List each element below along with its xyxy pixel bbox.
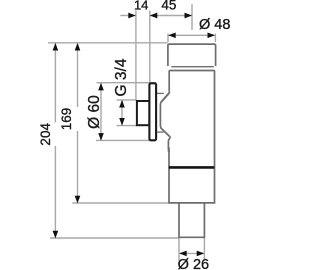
- svg-text:45: 45: [161, 0, 176, 13]
- svg-text:14: 14: [134, 0, 148, 13]
- svg-text:Ø 26: Ø 26: [178, 257, 209, 270]
- svg-text:G 3/4: G 3/4: [113, 58, 130, 96]
- svg-text:169: 169: [59, 108, 74, 131]
- svg-text:204: 204: [38, 123, 53, 146]
- svg-text:Ø 60: Ø 60: [86, 95, 103, 129]
- svg-text:Ø 48: Ø 48: [199, 17, 230, 33]
